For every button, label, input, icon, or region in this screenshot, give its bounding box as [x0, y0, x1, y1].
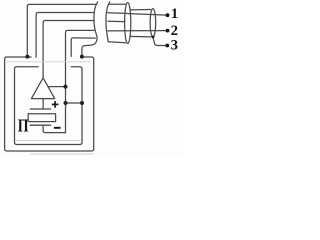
wire: node connector to shield box — [66, 102, 83, 104]
svg-text:3: 3 — [171, 37, 178, 53]
stripped shield bottom edge — [130, 35, 151, 38]
jacket cut-edge ellipse E1 — [125, 3, 131, 44]
junction dot housing top left — [25, 55, 29, 59]
wire: cable jacket top edge to sensor housing — [27, 4, 97, 55]
cable jacket bottom edge right of break — [108, 42, 125, 43]
piezo crystal body — [28, 114, 55, 122]
svg-text:1: 1 — [171, 6, 178, 22]
cable break arc 2 — [106, 2, 110, 42]
cable jacket top edge right of break — [110, 3, 126, 5]
terminal dot 1 — [166, 13, 170, 17]
piezo bottom plate — [30, 124, 50, 126]
cable core line right of break (ends at cut ellipse) — [108, 20, 125, 22]
svg-text:П: П — [18, 115, 29, 135]
faint scan ghost line below housing top — [6, 61, 91, 63]
faint scan ghost line below housing bottom — [30, 153, 94, 155]
junction dot shield end — [152, 35, 155, 38]
junction dot connector left — [64, 101, 68, 105]
cable line to terminal 1 — [108, 13, 167, 15]
wire: amp input to piezo top plate — [42, 99, 44, 109]
wire: cable core line to amplifier output — [43, 21, 94, 78]
polarity minus — [54, 127, 61, 129]
wire: cable line to amplifier input network — [66, 30, 95, 132]
junction dot connector right — [80, 101, 84, 105]
wire: amp feedback side to node — [48, 86, 66, 88]
inner shield box left/top piece — [15, 67, 83, 145]
wire: shield to terminal 3 — [153, 37, 167, 46]
wire: shield pigtail U-turn down to housing — [82, 2, 98, 56]
stripped shield top edge — [130, 9, 151, 11]
piezo top plate — [30, 108, 50, 110]
junction dot amp side node — [64, 85, 68, 89]
terminal dot 2 — [166, 29, 170, 33]
polarity plus — [52, 101, 59, 108]
terminal dot 3 — [165, 44, 169, 48]
wire: inner shield bottom line with stub — [71, 38, 95, 57]
wire: piezo bottom plate to shield node — [43, 125, 65, 132]
junction dot housing top right (pigtail) — [80, 55, 84, 59]
outer housing box — [5, 57, 94, 151]
faint scan ghost line above shield box bottom — [16, 140, 81, 142]
op-amp triangle U1 — [31, 78, 54, 99]
cable line to terminal 2 — [108, 30, 167, 32]
shield end ellipse E2 — [150, 9, 156, 37]
wire: cable core 1 top line to hanging stub — [36, 13, 94, 58]
